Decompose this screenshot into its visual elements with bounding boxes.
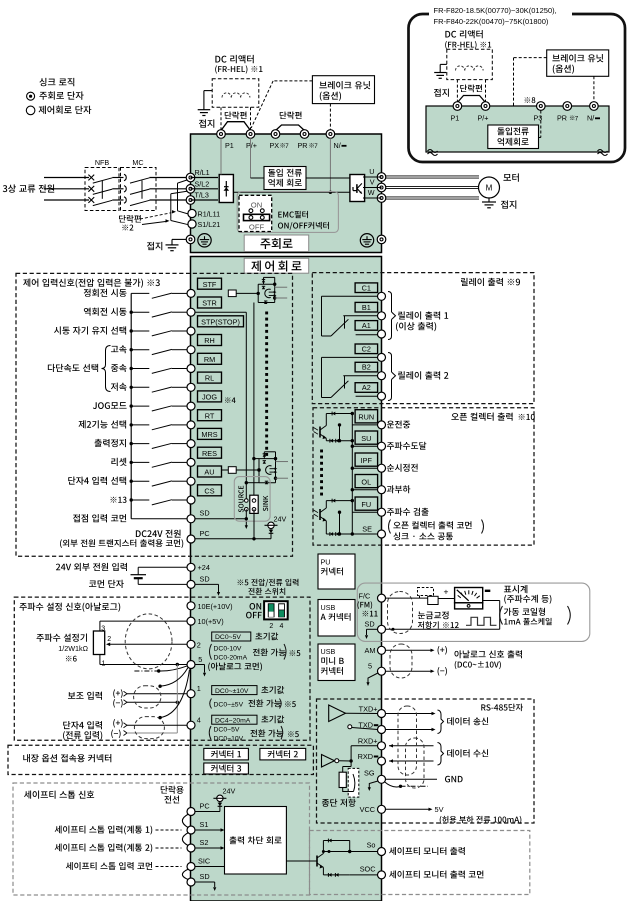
svg-text:24V: 24V [274, 515, 287, 524]
inset variant box [409, 14, 626, 162]
shield pill aux [134, 686, 161, 708]
meter rounded area [357, 583, 590, 641]
TXD driver triangle [329, 705, 346, 722]
curve aux shield to common [160, 668, 188, 687]
tanrakupyeon jumper label 1 [225, 111, 232, 119]
svg-text:DC0-20mA: DC0-20mA [214, 655, 248, 662]
svg-text:RES: RES [202, 449, 217, 458]
inset jumper bridge [457, 96, 485, 103]
terminal4 input labels [63, 721, 70, 729]
svg-text:RH: RH [204, 336, 215, 345]
jumper curve PC-S1 [182, 814, 188, 828]
terminal P1 [217, 130, 226, 139]
voltage current switch note [238, 580, 244, 586]
svg-text:2: 2 [197, 640, 201, 649]
terminal AU [198, 466, 222, 477]
wire DC bus negative [233, 191, 350, 193]
FM wire [385, 597, 427, 599]
terminal OL [355, 475, 378, 488]
jumper wire S/L2 to S1/L21 [171, 191, 189, 194]
SD meter arrow [367, 628, 378, 630]
svg-text:P/+: P/+ [478, 114, 489, 123]
svg-text:SE: SE [362, 524, 372, 533]
protective earth symbol left [198, 234, 211, 247]
svg-text:USB: USB [321, 647, 336, 656]
svg-text:FU: FU [361, 500, 371, 509]
terminal S1 [187, 826, 195, 834]
am shield pill [390, 644, 412, 678]
svg-text:4: 4 [280, 623, 284, 630]
square wave symbol [466, 617, 497, 625]
meter return wire [483, 600, 500, 602]
svg-text:SD: SD [365, 620, 375, 629]
terminal RL [198, 372, 222, 383]
RS-485 dashed box [317, 699, 535, 823]
svg-text:S1/L21: S1/L21 [198, 220, 221, 229]
inset DC reactor dashed box [447, 49, 493, 79]
svg-text:AM: AM [365, 646, 376, 655]
svg-text:DC0~5V: DC0~5V [214, 727, 240, 734]
short wire label [161, 786, 168, 794]
wire S1 into box [195, 829, 221, 831]
wire phase input [44, 177, 89, 179]
connector 3 box [204, 763, 249, 774]
terminal 10E [187, 602, 195, 610]
svg-text:S/L2: S/L2 [195, 179, 210, 188]
svg-text:V: V [370, 178, 375, 187]
svg-text:U: U [369, 167, 374, 176]
meter shield pill [388, 592, 413, 634]
oc rail branch run [339, 425, 341, 441]
oc transistor bottom group [319, 509, 321, 520]
terminal 10 [187, 617, 195, 625]
AM wire [385, 649, 430, 651]
open collector dashed box [313, 408, 534, 545]
connector 2 box [260, 748, 306, 760]
wire inverter to UVW [363, 176, 382, 178]
arrow to jumper 1 dashed [140, 213, 172, 219]
terminal P/+ [246, 130, 255, 139]
svg-text:A2: A2 [362, 383, 371, 392]
shield pill t4 [134, 717, 164, 739]
wire R into rectifier [191, 177, 219, 179]
svg-text:10E(+10V): 10E(+10V) [198, 602, 233, 611]
svg-text:+24: +24 [198, 563, 210, 572]
svg-text:ON: ON [251, 201, 262, 210]
svg-text:B2: B2 [362, 363, 371, 372]
legend main-circuit terminal symbol [27, 92, 35, 100]
inset reactor ground [440, 63, 447, 65]
terminal B2 [355, 362, 378, 372]
analog signal output labels [454, 650, 461, 658]
svg-text:STP(STOP): STP(STOP) [201, 317, 240, 326]
inset P3 dashed to inrush [540, 111, 542, 138]
sink source jumper pins [245, 499, 249, 503]
pot wiper to terminal 2 [108, 643, 188, 645]
svg-text:7: 7 [575, 116, 579, 123]
rail opto return [253, 303, 255, 501]
RXD receiver triangle [322, 755, 335, 768]
svg-text:FR-F820-18.5K(00770)~30K(01250: FR-F820-18.5K(00770)~30K(01250), [434, 6, 557, 15]
initial value DC0-5V [212, 632, 251, 641]
terminal U [377, 173, 386, 182]
3-phase AC power label [3, 185, 7, 192]
terminal N/- [326, 130, 335, 139]
terminal JOG [198, 391, 222, 402]
terminal IPF [355, 453, 378, 466]
dotted continuation rail oc [320, 450, 323, 453]
voltage current DIP switch [250, 603, 256, 610]
terminal 5 analog common [187, 661, 195, 669]
dotted continuation rail inputs [265, 312, 268, 315]
relay output 1 bracket [388, 292, 392, 340]
terminal W [377, 194, 386, 203]
switch for STP(STOP) [130, 329, 133, 332]
svg-text:2: 2 [107, 636, 111, 643]
switch for MRS [130, 442, 133, 445]
terminal RM [198, 353, 222, 364]
svg-text:F/C: F/C [359, 592, 371, 601]
wire SD safety arrow [195, 881, 215, 883]
svg-text:PX: PX [270, 141, 280, 150]
pot wire 3 to terminal 10 [99, 621, 101, 631]
aux minus wire [124, 700, 128, 705]
wire SIC into box [195, 866, 225, 868]
wire PC safety [195, 811, 220, 813]
terminal MRS [198, 428, 222, 439]
multi-speed brace [102, 346, 111, 392]
rail STR common [245, 312, 247, 500]
inset jumper stubs [456, 80, 458, 102]
initial value DC0-10V t1 [212, 686, 257, 695]
switch for CS [130, 498, 133, 501]
svg-text:5V: 5V [435, 805, 444, 814]
am arrow below [368, 673, 378, 683]
wire phase input [44, 199, 89, 201]
curve t4 shield to common [160, 670, 189, 718]
wire PC to 24V source [195, 538, 271, 540]
analog meter [455, 588, 483, 603]
svg-text:RM: RM [204, 355, 215, 364]
5 am wire [385, 670, 430, 672]
tanrakupyeon #2 label [119, 215, 126, 223]
switch for STR [130, 311, 133, 314]
jumper curve SIC-SD [182, 869, 188, 880]
PU connector box [318, 554, 355, 589]
dashed wire brake unit to P/+ [273, 80, 312, 82]
svg-text:SG: SG [364, 769, 375, 778]
inset inrush box [488, 125, 539, 149]
SG shield drain curve [385, 782, 401, 787]
svg-text:A1: A1 [362, 321, 371, 330]
svg-text:10(+5V): 10(+5V) [198, 617, 224, 626]
control circuit title [244, 258, 309, 273]
terminal S/L2 [186, 185, 195, 194]
terminal A2 [355, 383, 378, 393]
main circuit enclosure [191, 134, 382, 253]
svg-text:USB: USB [321, 603, 336, 612]
safety input labels [55, 826, 62, 834]
switch for RM [130, 367, 133, 370]
terminal SD safety [187, 878, 195, 886]
wire P/+ vertical [250, 138, 252, 178]
NFB pole link bar [101, 181, 103, 199]
DC reactor dashed box [212, 79, 259, 108]
safety stop dashed box [13, 783, 310, 895]
SG arrow inside [369, 781, 378, 788]
svg-text:NFB: NFB [95, 158, 110, 167]
control circuit enclosure [191, 257, 382, 901]
brake unit option box [312, 76, 374, 104]
terminal B1 [355, 302, 378, 312]
terminal PR [300, 130, 309, 139]
switch for AU [130, 480, 133, 483]
svg-text:SU: SU [361, 434, 371, 443]
rectifier module [219, 175, 233, 203]
terminal FU [355, 497, 378, 510]
terminal S1/L21 [188, 220, 196, 228]
svg-text:RT: RT [205, 411, 215, 420]
svg-text:PR: PR [557, 114, 567, 123]
analog section dashed box [14, 597, 310, 740]
dashed wire brake unit to N/- [329, 104, 331, 130]
motor wires [386, 175, 479, 177]
svg-text:3: 3 [101, 626, 105, 633]
analog common arrow [195, 664, 204, 666]
MC magnetic contactor [121, 168, 157, 211]
jumper stub P/+ [250, 107, 252, 130]
inset squiggle left [428, 150, 438, 153]
tanrakupyeon jumper label 2 [280, 111, 287, 119]
inset green terminal bar [426, 106, 609, 152]
svg-text:TXD+: TXD+ [359, 705, 378, 714]
VCC wire 5V [385, 808, 428, 810]
GND wire [385, 778, 437, 780]
svg-text:PU: PU [321, 558, 331, 567]
oc rail [351, 414, 353, 535]
switch for RL [130, 386, 133, 389]
svg-text:7: 7 [285, 143, 289, 150]
inset tanrakupyeon label [460, 84, 467, 92]
common terminal label [89, 581, 96, 587]
sink-source selector area [234, 477, 270, 522]
svg-text:RXD+: RXD+ [358, 737, 378, 746]
svg-text:P1: P1 [451, 114, 460, 123]
svg-text:1: 1 [197, 684, 201, 693]
svg-text:24V: 24V [223, 787, 236, 796]
terminal T/L3 [186, 196, 195, 205]
RS485 shield pills [398, 706, 417, 775]
rail sink pin down to PC wire [245, 509, 247, 519]
inrush current suppression circuit box [251, 177, 265, 179]
svg-text:SD: SD [200, 872, 210, 881]
terminal RES [198, 447, 222, 458]
pot wire 1 to terminal 5 [99, 655, 101, 665]
inset DC reactor label [445, 31, 450, 38]
switch for JOG [130, 404, 133, 407]
terminal SIC [187, 863, 195, 871]
jumper bridge PX to PR [276, 125, 305, 131]
svg-text:+: + [444, 587, 449, 597]
shield ellipse pot cable [125, 614, 172, 669]
calibration resistor box [428, 596, 438, 604]
svg-text:SD: SD [200, 575, 210, 584]
terminal A1 [355, 321, 378, 331]
svg-text:DC0~±10V: DC0~±10V [215, 688, 249, 695]
svg-text:P1: P1 [225, 141, 234, 150]
jumper bridge P1 to P/+ [221, 122, 251, 131]
protective earth symbol right [360, 234, 373, 247]
DC reactor coil [222, 93, 231, 98]
DC reactor ground [204, 90, 212, 92]
curve drain to common [159, 666, 188, 671]
input common bus [130, 293, 132, 518]
svg-text:OFF: OFF [249, 223, 265, 232]
svg-text:DC0~±5V: DC0~±5V [214, 702, 244, 709]
svg-text:M: M [486, 184, 493, 193]
NFB molded case circuit breaker [85, 168, 119, 211]
arrow below SD junction [245, 519, 247, 526]
svg-text:DC4~20mA: DC4~20mA [215, 717, 251, 724]
svg-text:S1: S1 [200, 820, 209, 829]
arrow to jumper 2 [142, 222, 166, 225]
relay 1 contact [322, 295, 378, 297]
svg-text:N/: N/ [587, 114, 594, 123]
svg-text:STR: STR [202, 299, 217, 308]
24V external power input label [56, 564, 60, 571]
inset dashed brake to N [593, 76, 595, 102]
terminal STP(STOP) [198, 316, 244, 327]
aux plus wire [124, 691, 128, 696]
terminal 1 aux [187, 690, 195, 698]
svg-text:P/+: P/+ [246, 141, 257, 150]
svg-text:CS: CS [204, 486, 214, 495]
terminal C2 [355, 344, 378, 354]
terminal 4 [187, 721, 195, 729]
svg-text:JOG: JOG [202, 393, 217, 402]
svg-text:OL: OL [361, 478, 371, 487]
inset squiggle right [598, 150, 608, 153]
jumper stub P1 [220, 107, 222, 130]
output shutoff circuit box [225, 807, 287, 875]
svg-text:DC0-10V: DC0-10V [214, 646, 242, 653]
optocoupler AU input [222, 469, 260, 471]
svg-text:STF: STF [203, 280, 217, 289]
wire S2 into box [195, 847, 221, 849]
potentiometer frequency setting [37, 634, 44, 642]
wire P1 vertical [220, 138, 222, 174]
terminal R/L1 [186, 173, 195, 182]
terminal STR [198, 297, 222, 308]
optocoupler STF input [236, 292, 258, 294]
svg-text:PR: PR [298, 141, 308, 150]
svg-text:RUN: RUN [358, 413, 374, 422]
svg-text:4: 4 [197, 716, 201, 725]
RXD wires [389, 745, 434, 747]
terminal +24 [187, 563, 195, 571]
t4 minus wire gray [124, 731, 128, 736]
svg-text:PC: PC [200, 529, 210, 538]
svg-text:IPF: IPF [361, 456, 373, 465]
svg-text:5: 5 [368, 662, 372, 671]
svg-text:R1/L11: R1/L11 [198, 210, 221, 219]
svg-text:N/: N/ [334, 141, 341, 150]
terminal SD contact common [73, 514, 80, 522]
ground terminal main left [147, 242, 154, 250]
svg-text:7: 7 [314, 143, 318, 150]
svg-text:DC0~10V: DC0~10V [214, 736, 244, 743]
dashed wires safety inputs [156, 829, 182, 831]
common rail gray vertical [176, 665, 178, 734]
svg-text:MRS: MRS [201, 430, 217, 439]
calibration resistor dashed [418, 588, 434, 596]
svg-text:PC: PC [200, 802, 210, 811]
relay 2 contact [322, 356, 378, 358]
svg-text:DC0~5V: DC0~5V [215, 634, 241, 641]
inset hash8 [525, 97, 531, 103]
USB mini B connector box [318, 644, 355, 681]
svg-text:2: 2 [269, 623, 273, 630]
initial value DC4-20mA t4 [212, 715, 257, 724]
svg-text:B1: B1 [362, 303, 371, 312]
svg-text:W: W [368, 188, 375, 197]
oc transistor top group [319, 427, 321, 438]
svg-text:FR-F840-22K(00470)~75K(01800): FR-F840-22K(00470)~75K(01800) [434, 17, 549, 26]
terminal SU [355, 431, 378, 444]
inset dashed brake to bus [514, 57, 547, 59]
legend control-circuit terminal symbol [26, 106, 35, 115]
calibration label [418, 612, 425, 620]
terminal PC 24V power [136, 530, 141, 537]
terminal S2 [187, 844, 195, 852]
control input dashed section box [16, 273, 293, 556]
inset terminals [453, 102, 462, 111]
wire inrush to inverter [306, 177, 350, 179]
svg-text:S2: S2 [200, 838, 209, 847]
main circuit title [244, 235, 309, 252]
terminal PX [271, 130, 280, 139]
svg-text:SD: SD [200, 509, 210, 518]
24V internal source [270, 529, 272, 539]
svg-text:C2: C2 [362, 344, 371, 353]
terminal RH [198, 335, 222, 346]
svg-text:C1: C1 [362, 283, 371, 292]
svg-text:T/L3: T/L3 [195, 191, 209, 200]
svg-text:RXD: RXD [358, 752, 373, 761]
so opto transistor [286, 860, 317, 862]
wire N/- vertical [329, 138, 331, 192]
switch for RH [130, 348, 133, 351]
terminating resistor [350, 761, 352, 767]
safety monitor dashed box [310, 831, 530, 895]
terminal 2 [187, 640, 195, 648]
svg-text:SOC: SOC [360, 865, 376, 874]
wire SD to sink junction [195, 518, 246, 520]
svg-text:VCC: VCC [360, 805, 375, 814]
wire phase input [44, 188, 89, 190]
connector 1 box [204, 748, 249, 760]
inverter module [350, 175, 365, 202]
motor ground [488, 198, 490, 202]
terminal V [377, 183, 386, 192]
motor M [479, 177, 500, 198]
TXD wires [385, 713, 431, 715]
terminal RUN [355, 410, 378, 423]
jumper curve S1-S2 [182, 833, 188, 846]
DC reactor FR-HEL label [215, 56, 220, 63]
terminal SD external [187, 580, 195, 588]
terminal PC safety [187, 808, 195, 816]
